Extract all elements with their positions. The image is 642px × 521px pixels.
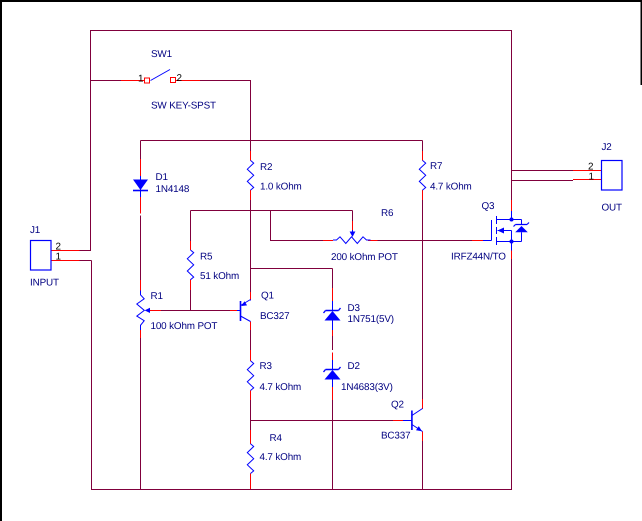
wire R6 right to Q3 gate (378, 240, 473, 242)
resistor R5 (187, 250, 193, 280)
svg-text:SW KEY-SPST: SW KEY-SPST (151, 101, 216, 112)
pin R2 leads (250, 151, 252, 200)
wire R7 top lead (422, 141, 424, 152)
svg-text:IRFZ44N/TO: IRFZ44N/TO (451, 252, 506, 263)
svg-text:51 kOhm: 51 kOhm (200, 271, 239, 282)
svg-text:D3: D3 (348, 303, 361, 314)
svg-text:1N4148: 1N4148 (156, 184, 190, 195)
svg-text:100 kOhm POT: 100 kOhm POT (151, 321, 218, 332)
wire R1 wiper to Q1 base (161, 310, 230, 312)
pin Q2 leads (393, 399, 423, 441)
connector J2 (602, 161, 623, 191)
pin Q3 drain lead (511, 200, 513, 211)
border frame left (0, 0, 2, 521)
svg-text:R7: R7 (430, 161, 442, 172)
svg-text:R3: R3 (260, 361, 273, 372)
pin SW1.1 lead (121, 80, 144, 82)
wire J1 pin2 to left edge (80, 250, 92, 252)
svg-text:BC327: BC327 (260, 311, 289, 322)
svg-text:4.7 kOhm: 4.7 kOhm (430, 182, 472, 193)
wire R1 bottom to bottom bus (140, 338, 142, 490)
svg-text:D2: D2 (348, 361, 360, 372)
potentiometer R6 (333, 230, 371, 244)
pin R7 leads (422, 151, 424, 200)
transistor Q2 (NPN BC337) (403, 409, 423, 432)
wire J2 pin2 (512, 170, 574, 172)
svg-text:J2: J2 (602, 142, 612, 153)
zener diode D3 (324, 301, 341, 330)
border frame top (0, 0, 642, 2)
pin R6 leads (323, 221, 378, 241)
wire R3 bottom junction to R4 and Q2 base (251, 400, 394, 430)
svg-text:1: 1 (589, 172, 595, 183)
svg-text:J1: J1 (30, 225, 41, 236)
wire left lower edge J1 pin1 down to bottom (80, 261, 92, 490)
pin R5 leads (190, 241, 192, 290)
connector J1 (31, 241, 52, 271)
wire J2 pin1 (512, 180, 574, 182)
wire R5 bottom to wiper node (190, 290, 192, 311)
svg-text:4.7 kOhm: 4.7 kOhm (260, 382, 302, 393)
svg-text:1N751(5V): 1N751(5V) (348, 314, 394, 325)
pin R3 leads (250, 350, 252, 400)
diode D1 (133, 176, 148, 197)
potentiometer R1 (137, 291, 150, 331)
wire R5 top lead (190, 211, 192, 242)
svg-text:2: 2 (177, 73, 182, 84)
pin D3 leads (332, 288, 334, 336)
border frame right partial (641, 0, 642, 85)
wire R7 bottom to Q2 collector (422, 200, 424, 399)
wire R6 left terminal L (271, 211, 324, 241)
svg-text:SW1: SW1 (151, 49, 173, 60)
wire Q2 emitter to bottom bus (422, 441, 424, 490)
svg-text:R6: R6 (381, 208, 394, 219)
wire D1 to R1 (140, 216, 142, 282)
wire SW1 left from edge (90, 80, 121, 82)
zener diode D2 (324, 360, 341, 387)
pin D2 leads (332, 353, 334, 401)
wire D2 bottom to bottom bus (332, 400, 334, 490)
wire D1 top lead (140, 141, 142, 160)
svg-text:R4: R4 (270, 433, 283, 444)
svg-text:R5: R5 (200, 252, 213, 263)
wire Q1 collector to R3 (250, 330, 252, 350)
pin Q3 gate lead (472, 240, 483, 242)
wire bottom bus (91, 489, 512, 491)
wire right lower edge Q3 source to bottom (511, 259, 513, 490)
wire node to D3 branch (251, 269, 333, 289)
pin R4 leads (250, 430, 252, 489)
wire SW1 right down to R2 (200, 81, 251, 152)
pin J1 leads (52, 251, 80, 261)
svg-text:200 kOhm POT: 200 kOhm POT (331, 252, 398, 263)
wire D3 to D2 (332, 336, 334, 350)
wire main horizontal node D1-R2-R7 (141, 140, 423, 142)
svg-text:Q2: Q2 (391, 400, 404, 411)
resistor R2 (247, 160, 253, 190)
MOSFET Q3 (IRFZ44N) (483, 211, 529, 251)
svg-text:R1: R1 (151, 291, 164, 302)
svg-text:R2: R2 (260, 162, 272, 173)
resistor R4 (247, 444, 253, 474)
svg-text:1N4683(3V): 1N4683(3V) (341, 382, 393, 393)
resistor R3 (247, 361, 253, 391)
svg-text:D1: D1 (156, 172, 169, 183)
svg-text:INPUT: INPUT (30, 278, 59, 289)
svg-text:1.0 kOhm: 1.0 kOhm (260, 182, 302, 193)
pin J2 leads (573, 171, 601, 180)
wire R5 top node horizontal (191, 210, 353, 212)
svg-text:OUT: OUT (602, 203, 623, 214)
svg-text:BC337: BC337 (381, 431, 410, 442)
switch SW1 (145, 70, 176, 84)
svg-text:4.7 kOhm: 4.7 kOhm (260, 452, 302, 463)
wire R2 bottom to Q1 emitter bus (250, 200, 252, 292)
wire R6 wiper drop (352, 211, 354, 222)
svg-text:Q3: Q3 (482, 201, 496, 212)
pin Q3 source lead (511, 251, 513, 260)
pin R1 leads (141, 280, 162, 338)
resistor R7 (419, 160, 425, 190)
pin D1 leads (140, 159, 142, 214)
svg-text:1: 1 (56, 252, 62, 263)
pin SW1.2 lead (176, 80, 200, 82)
svg-text:1: 1 (138, 74, 144, 85)
svg-text:Q1: Q1 (261, 291, 275, 302)
transistor Q1 (PNP BC327) (237, 300, 251, 322)
pin Q1 leads (230, 292, 251, 330)
wire top bus and right edge down to Q3 drain (91, 31, 512, 251)
